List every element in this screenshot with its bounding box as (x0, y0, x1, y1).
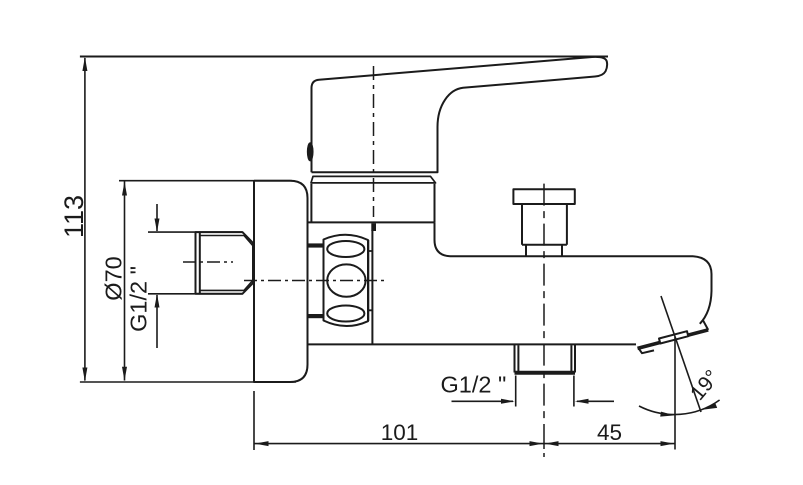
diverter knob stem (522, 204, 567, 245)
arrowhead 101 right (530, 441, 544, 446)
angle slant line 19 deg (661, 296, 701, 412)
dimension G1/2 wall thread: lower segment (156, 295, 158, 348)
bottom dimension line 101 / 45 (254, 443, 675, 445)
arrowhead Ø70 bottom (122, 367, 127, 381)
diverter knob neck (526, 245, 562, 257)
nut tick right top (371, 223, 376, 231)
dimension line Ø70 (124, 182, 126, 381)
body shoulder line (307, 221, 434, 223)
wall thread centerline (183, 261, 233, 263)
nut tick lower (308, 314, 324, 318)
shower outlet thread (515, 344, 576, 372)
nut right column edge (371, 230, 373, 344)
angle arc (639, 400, 720, 415)
arrowhead Ø70 top (122, 182, 127, 196)
svg-text:113: 113 (59, 195, 89, 238)
cartridge cover ring (311, 184, 434, 223)
aerator insert (659, 331, 688, 343)
union nut outline (324, 235, 369, 326)
arrowhead G1/2 up (155, 294, 160, 308)
wall extension line (bottom dimension) (253, 391, 255, 450)
svg-text:101: 101 (381, 420, 419, 445)
wall thread relief line (199, 232, 201, 294)
arrowhead 45 right (661, 441, 675, 446)
arrowhead G1/2 down (155, 219, 160, 233)
main horizontal centerline (244, 280, 388, 282)
indicator dot on handle edge (308, 143, 313, 161)
wall thread root line bottom (200, 280, 253, 290)
wall thread bottom extension line (148, 293, 242, 295)
arc arrowhead at vertical (660, 412, 674, 417)
wall thread top extension line (148, 231, 242, 233)
svg-text:45: 45 (597, 420, 622, 445)
arrowhead 113 top (82, 57, 87, 71)
arrowhead 45 left (545, 441, 559, 446)
handle lever (312, 57, 608, 172)
nut tick upper (308, 243, 324, 247)
svg-text:G1/2 ": G1/2 " (441, 371, 507, 397)
outlet width dimension left arrow (452, 400, 514, 402)
arc arrowhead at slant (702, 403, 717, 410)
svg-text:G1/2 ": G1/2 " (126, 266, 152, 332)
union nut top facet (327, 241, 364, 257)
dimension G1/2 wall thread: upper segment (156, 204, 158, 231)
aerator right hook (703, 320, 708, 330)
chamfer ring under handle (311, 176, 436, 183)
bottom extension line (wall datum at flange bottom) (80, 381, 296, 383)
spout barrel top edge (450, 255, 693, 257)
top extension line (overall height datum) (80, 56, 608, 58)
wall flange (escutcheon) (254, 181, 308, 382)
nut facet connector ticks (368, 251, 372, 310)
flange top extension line (119, 180, 292, 182)
union nut bottom facet (327, 306, 364, 322)
union nut middle facet (327, 264, 365, 296)
body right edge and fillet into spout (435, 222, 451, 256)
wall thread root line top (200, 236, 253, 246)
outlet width dimension right arrow (577, 400, 614, 402)
arrowhead 101 left (255, 441, 269, 446)
spout barrel bottom edge (309, 343, 637, 345)
spout right end (693, 256, 712, 324)
dimension line 113 (84, 58, 86, 381)
shower outlet thread end face (thick) (515, 371, 576, 375)
outlet extension line right (573, 376, 575, 407)
svg-text:Ø70: Ø70 (101, 256, 127, 300)
outlet extension line left (515, 376, 517, 407)
aerator left hook (639, 348, 655, 353)
spout tip extension line / angle reference (674, 337, 676, 450)
union nut facet edge (367, 240, 369, 321)
wall thread G1/2 body (196, 232, 254, 294)
diverter knob cap (513, 189, 574, 204)
aerator face (tilted 19 deg) (638, 330, 709, 349)
outlet axis centerline (543, 184, 545, 422)
arrowhead 113 bottom (82, 368, 87, 382)
handle axis centerline (373, 66, 375, 217)
